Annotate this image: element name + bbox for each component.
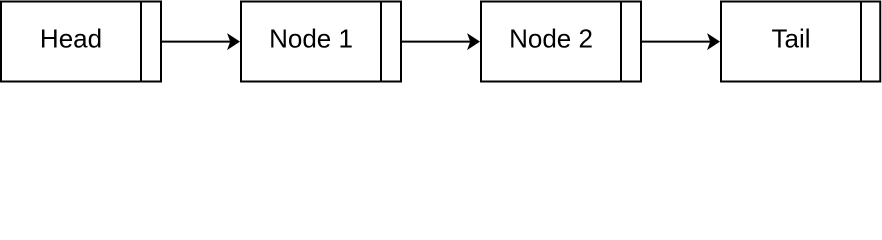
svg-text:Node 1: Node 1 <box>269 24 353 54</box>
svg-text:Tail: Tail <box>771 24 810 54</box>
svg-text:Node 2: Node 2 <box>509 24 593 54</box>
svg-text:Head: Head <box>40 24 102 54</box>
